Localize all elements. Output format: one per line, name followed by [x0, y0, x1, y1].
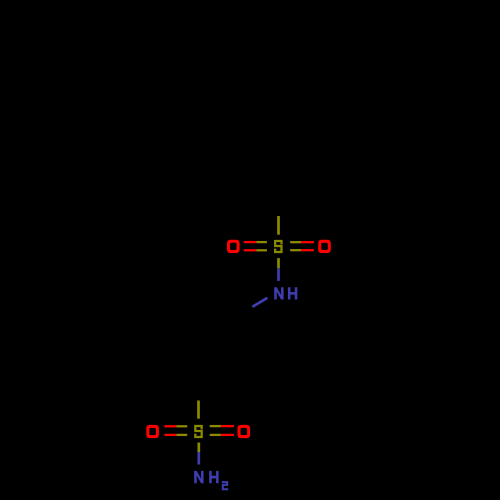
bond S1-N1 (sulfur half): [277, 258, 280, 268]
double bond S2=O4 (oxygen half): [221, 425, 234, 427]
double bond S1=O2 (sulfur half): [290, 241, 301, 243]
bond S1-N1 (nitrogen half): [277, 268, 280, 281]
hydrogen H of NH: [288, 287, 297, 299]
double bond S1=O2 (oxygen half): [301, 241, 314, 243]
oxygen O4: [238, 425, 251, 438]
sulfur S1: [274, 240, 283, 253]
double bond S2=O3 (oxygen half): [164, 425, 176, 427]
nitrogen N2, label N of NH2: [194, 471, 203, 483]
oxygen O3: [146, 425, 159, 438]
bond C3-S2 (sulfur half): [197, 401, 200, 419]
double bond S2=O4 (sulfur half): [210, 425, 221, 427]
double bond S1=O1 (sulfur half): [256, 241, 267, 243]
double bond S2=O3 (sulfur half): [176, 425, 187, 427]
sulfur S2: [194, 425, 203, 438]
bond S2-N2 (nitrogen half): [197, 452, 200, 465]
bond C1-S1 (sulfur half): [277, 216, 280, 235]
bond N1-C2 (nitrogen half): [252, 298, 267, 307]
subscript 2 of NH2: [222, 481, 228, 490]
double bond S1=O1 (oxygen half): [244, 241, 257, 243]
oxygen O1: [227, 240, 240, 253]
hydrogen H of NH2: [209, 471, 218, 483]
bond S2-N2 (sulfur half): [197, 443, 200, 453]
oxygen O2: [318, 240, 331, 253]
nitrogen N1, label N of NH: [274, 287, 283, 299]
